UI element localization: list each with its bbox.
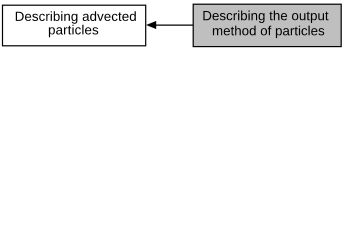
label line "Describing advected" — [16, 11, 136, 24]
label line "particles" — [49, 25, 98, 38]
node box: Describing advected particles — [3, 5, 146, 46]
label line "method of particles" — [213, 26, 324, 38]
edge wire from grey node to white node — [156, 24, 193, 26]
label line "Describing the output" — [203, 11, 328, 24]
arrowhead pointing left — [147, 21, 156, 29]
background — [0, 0, 347, 51]
node box: Describing the output method of particles (current node, grey fill) — [193, 4, 341, 46]
